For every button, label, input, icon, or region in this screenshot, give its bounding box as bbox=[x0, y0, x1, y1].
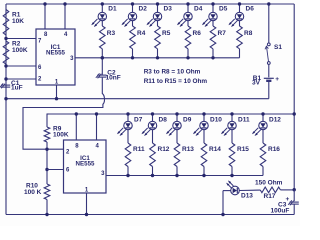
junction left bus pin2 bbox=[4, 77, 7, 80]
op-amp IC2 NE555 box bbox=[64, 140, 107, 193]
IC1 pin 2 number bbox=[38, 77, 42, 83]
IC2 pin 2 number bbox=[66, 150, 70, 156]
svg-text:R15: R15 bbox=[237, 146, 249, 153]
wire D10 to R14 bbox=[203, 130, 205, 143]
IC1 pin 8 stub bbox=[44, 4, 46, 29]
svg-text:R3 to R8 = 10 Ohm: R3 to R8 = 10 Ohm bbox=[144, 68, 201, 75]
wire R10 to bottom rail bbox=[46, 200, 48, 215]
wire bottom ground rail bbox=[6, 214, 294, 216]
LED D1 feed wire bbox=[101, 4, 103, 12]
svg-text:7: 7 bbox=[38, 39, 42, 45]
svg-text:100K: 100K bbox=[12, 47, 28, 54]
svg-text:10nF: 10nF bbox=[106, 75, 121, 82]
svg-text:D2: D2 bbox=[139, 6, 148, 13]
svg-text:R14: R14 bbox=[209, 146, 221, 153]
svg-text:4: 4 bbox=[96, 144, 100, 150]
svg-text:D8: D8 bbox=[159, 117, 168, 124]
LED D3 feed wire bbox=[157, 4, 159, 12]
wire R7 to output rail bbox=[212, 49, 214, 58]
junction IC2 output rail R14 bbox=[202, 174, 205, 177]
junction supply rail D8 bbox=[151, 112, 154, 115]
junction output rail R3 bbox=[101, 56, 104, 59]
junction supply rail pin4 bbox=[95, 112, 98, 115]
label R14 bbox=[209, 146, 221, 153]
wire R9 bottom to R10 bbox=[46, 142, 48, 184]
wire lower supply rail bbox=[48, 113, 294, 115]
junction right bus R17 bbox=[293, 188, 296, 191]
wire pin3 rail to C2 bbox=[101, 58, 103, 75]
resistor R13 bbox=[174, 143, 180, 167]
wire R16 to output rail bbox=[262, 167, 264, 176]
wire IC1 pin3 output rail bbox=[75, 57, 240, 59]
resistor R4 bbox=[130, 26, 136, 49]
note R11-R15 value bbox=[144, 78, 208, 85]
resistor R1 bbox=[3, 10, 9, 36]
label S1 bbox=[274, 44, 282, 51]
LED D10 bbox=[193, 121, 208, 136]
junction top rail pin8 bbox=[43, 2, 46, 5]
capacitor C3 bbox=[288, 200, 299, 205]
label R11 bbox=[133, 146, 145, 153]
label R7 bbox=[218, 30, 227, 37]
IC1 pin 3 number bbox=[70, 56, 74, 62]
wire D7 to R11 bbox=[127, 130, 129, 143]
capacitor C1 bbox=[0, 83, 10, 88]
op-amp IC1 NE555 box bbox=[36, 29, 75, 85]
wire R17 to right bus bbox=[280, 189, 294, 191]
LED D9 feed wire bbox=[176, 114, 178, 121]
IC1 label bbox=[46, 44, 65, 56]
junction bottom rail D13 bbox=[221, 213, 224, 216]
label D8 bbox=[159, 117, 168, 124]
wire D13 to R17 bbox=[239, 189, 260, 191]
junction pin6 net bbox=[45, 168, 48, 171]
wire D1 to R3 bbox=[101, 21, 103, 26]
label R8 bbox=[244, 30, 253, 37]
wire right bus to C3 bbox=[293, 190, 295, 202]
label R5 bbox=[162, 30, 171, 37]
wire battery to ground rail bbox=[268, 82, 270, 99]
resistor R15 bbox=[229, 143, 235, 167]
label C1 1uF bbox=[11, 80, 23, 92]
wire R15 to output rail bbox=[231, 167, 233, 176]
svg-text:10K: 10K bbox=[12, 18, 24, 25]
junction supply rail D7 bbox=[126, 112, 129, 115]
LED D4 feed wire bbox=[187, 4, 189, 12]
svg-text:2: 2 bbox=[38, 77, 42, 83]
svg-text:D3: D3 bbox=[164, 6, 173, 13]
wire D6 to R8 bbox=[239, 21, 241, 26]
junction output rail R4 bbox=[131, 56, 134, 59]
svg-text:R7: R7 bbox=[218, 30, 227, 37]
resistor R14 bbox=[201, 143, 207, 167]
wire D8 to R12 bbox=[152, 130, 154, 143]
wire D5 to R7 bbox=[212, 21, 214, 26]
wire R8 to output rail bbox=[239, 49, 241, 58]
resistor R12 bbox=[150, 143, 156, 167]
resistor R7 bbox=[210, 26, 216, 49]
wire top supply rail bbox=[6, 3, 294, 5]
LED D2 feed wire bbox=[132, 4, 134, 12]
junction left bus pin6 bbox=[4, 64, 7, 67]
LED D9 bbox=[166, 121, 181, 136]
resistor R5 bbox=[155, 26, 161, 49]
label D1 bbox=[108, 6, 117, 13]
IC1 pin 7 number bbox=[38, 39, 42, 45]
LED D4 bbox=[177, 12, 192, 27]
wire R3 to output rail bbox=[101, 49, 103, 58]
IC1 pin 6 wire bbox=[6, 65, 36, 67]
junction ground rail pin1 bbox=[55, 97, 58, 100]
svg-text:D5: D5 bbox=[219, 6, 228, 13]
wire R12 to output rail bbox=[152, 167, 154, 176]
junction supply rail D12 bbox=[261, 112, 264, 115]
LED D5 feed wire bbox=[212, 4, 214, 12]
LED D6 feed wire bbox=[239, 4, 241, 12]
svg-text:+: + bbox=[286, 196, 290, 203]
svg-text:D6: D6 bbox=[246, 6, 255, 13]
wire R13 to output rail bbox=[176, 167, 178, 176]
wire S1 to battery bbox=[268, 64, 270, 77]
svg-text:100K: 100K bbox=[53, 132, 69, 139]
resistor R17 bbox=[260, 187, 280, 193]
IC1 pin 8 number bbox=[44, 32, 48, 38]
svg-text:3: 3 bbox=[101, 171, 105, 177]
svg-text:R17: R17 bbox=[264, 193, 276, 200]
svg-text:100uF: 100uF bbox=[271, 208, 290, 215]
svg-text:1uF: 1uF bbox=[11, 85, 23, 92]
svg-text:8: 8 bbox=[44, 32, 48, 38]
wire D3 to R5 bbox=[157, 21, 159, 26]
LED D8 bbox=[141, 121, 156, 136]
svg-text:R8: R8 bbox=[244, 30, 253, 37]
wire R5 to output rail bbox=[157, 49, 159, 58]
svg-text:+: + bbox=[275, 76, 279, 83]
LED D7 feed wire bbox=[127, 114, 129, 121]
junction left bus ground bbox=[4, 97, 7, 100]
battery plus sign bbox=[275, 76, 279, 83]
IC2 label bbox=[76, 155, 95, 168]
label D9 bbox=[183, 117, 192, 124]
label R13 bbox=[182, 146, 194, 153]
label R3 bbox=[107, 30, 116, 37]
junction top rail D1 bbox=[101, 2, 104, 5]
svg-text:R13: R13 bbox=[182, 146, 194, 153]
label C2 10nF bbox=[106, 70, 121, 82]
LED D8 feed wire bbox=[152, 114, 154, 121]
junction supply rail D10 bbox=[202, 112, 205, 115]
svg-text:3: 3 bbox=[70, 56, 74, 62]
IC2 pin 4 stub bbox=[96, 114, 98, 140]
junction supply rail D11 bbox=[230, 112, 233, 115]
label D3 bbox=[164, 6, 173, 13]
label R4 bbox=[137, 30, 146, 37]
svg-text:R11: R11 bbox=[133, 146, 145, 153]
label D12 bbox=[269, 117, 281, 124]
svg-text:2: 2 bbox=[66, 150, 70, 156]
label R15 bbox=[237, 146, 249, 153]
junction top rail D2 bbox=[131, 2, 134, 5]
junction bottom rail R10 bbox=[45, 213, 48, 216]
junction bottom rail pin1 bbox=[85, 213, 88, 216]
junction output rail R7 bbox=[211, 56, 214, 59]
IC2 pin 8 stub bbox=[75, 114, 77, 140]
capacitor C2 bbox=[96, 73, 107, 78]
wire top rail to S1 bbox=[268, 4, 270, 43]
IC2 pin 1 stub bbox=[86, 193, 88, 215]
svg-text:D13: D13 bbox=[241, 193, 253, 200]
svg-text:R6: R6 bbox=[193, 30, 202, 37]
wire C3 to bottom rail bbox=[293, 204, 295, 214]
IC1 pin 7 wire bbox=[6, 38, 36, 40]
IC1 pin 2 wire bbox=[6, 78, 36, 80]
label R10 100K bbox=[24, 183, 42, 197]
switch S1 bbox=[265, 43, 270, 64]
svg-text:6: 6 bbox=[66, 167, 70, 173]
svg-text:R12: R12 bbox=[158, 146, 170, 153]
junction IC2 output rail R15 bbox=[230, 174, 233, 177]
IC2 pin 1 number bbox=[85, 188, 89, 194]
junction top rail pin4 bbox=[63, 2, 66, 5]
IC1 pin 4 number bbox=[64, 32, 68, 38]
C3 plus sign bbox=[286, 196, 290, 203]
IC1 pin 1 number bbox=[55, 80, 59, 86]
wire D4 to R6 bbox=[187, 21, 189, 26]
LED D5 bbox=[202, 12, 217, 27]
wire left bus bbox=[5, 4, 7, 215]
label D4 bbox=[194, 6, 203, 13]
IC2 pin 8 number bbox=[75, 144, 79, 150]
IC1 pin 6 number bbox=[38, 65, 42, 71]
junction top rail D4 bbox=[186, 2, 189, 5]
label D5 bbox=[219, 6, 228, 13]
svg-text:D9: D9 bbox=[183, 117, 192, 124]
svg-text:R16: R16 bbox=[268, 146, 280, 153]
junction supply rail right bbox=[293, 112, 296, 115]
svg-text:R4: R4 bbox=[137, 30, 146, 37]
svg-text:D11: D11 bbox=[238, 117, 250, 124]
svg-text:R3: R3 bbox=[107, 30, 116, 37]
junction R9 bottom pin2 net bbox=[45, 148, 48, 151]
junction top rail D5 bbox=[211, 2, 214, 5]
battery B1 bbox=[264, 78, 274, 81]
junction output rail R5 bbox=[156, 56, 159, 59]
label C3 100uF bbox=[271, 202, 290, 215]
resistor R11 bbox=[125, 143, 131, 167]
svg-text:D10: D10 bbox=[210, 117, 222, 124]
svg-text:D7: D7 bbox=[134, 117, 143, 124]
IC2 pin 3 number bbox=[101, 171, 105, 177]
svg-text:NE555: NE555 bbox=[76, 161, 95, 168]
svg-text:D4: D4 bbox=[194, 6, 203, 13]
label D11 bbox=[238, 117, 250, 124]
LED D11 bbox=[221, 121, 236, 136]
svg-text:4: 4 bbox=[64, 32, 68, 38]
junction supply rail pin8 bbox=[75, 112, 78, 115]
label D7 bbox=[134, 117, 143, 124]
label 150 Ohm bbox=[255, 179, 283, 186]
svg-text:100 K: 100 K bbox=[24, 189, 42, 196]
LED D6 bbox=[228, 12, 243, 27]
label D6 bbox=[246, 6, 255, 13]
LED D13 bbox=[226, 180, 239, 194]
label R6 bbox=[193, 30, 202, 37]
IC2 pin 6 wire bbox=[47, 169, 64, 171]
wire R4 to output rail bbox=[132, 49, 134, 58]
IC2 pin 4 number bbox=[96, 144, 100, 150]
LED D2 bbox=[121, 12, 136, 27]
LED D1 bbox=[91, 12, 106, 27]
wire D11 to R15 bbox=[231, 130, 233, 143]
IC2 pin 6 number bbox=[66, 167, 70, 173]
junction IC2 output rail R12 bbox=[151, 174, 154, 177]
svg-text:NE555: NE555 bbox=[46, 50, 65, 57]
resistor R9 bbox=[44, 127, 50, 142]
LED D3 bbox=[146, 12, 161, 27]
junction IC2 output rail R13 bbox=[175, 174, 178, 177]
label R2 100K bbox=[12, 41, 28, 55]
label B1 3V bbox=[252, 75, 261, 87]
resistor R6 bbox=[185, 26, 191, 49]
junction top rail D6 bbox=[238, 2, 241, 5]
LED D12 bbox=[252, 121, 267, 136]
label R1 10K bbox=[12, 12, 24, 26]
svg-text:S1: S1 bbox=[274, 44, 282, 51]
junction supply rail D9 bbox=[175, 112, 178, 115]
wire R11 to output rail bbox=[127, 167, 129, 176]
LED D12 feed wire bbox=[262, 114, 264, 121]
junction output rail C2 bbox=[101, 56, 104, 59]
wire R9 top lead bbox=[47, 114, 49, 127]
junction left bus pin7 bbox=[4, 37, 7, 40]
label D13 bbox=[241, 193, 253, 200]
label R16 bbox=[268, 146, 280, 153]
note R3-R8 value bbox=[144, 68, 201, 75]
wire bottom rail to D13 bbox=[223, 191, 231, 215]
wire D2 to R4 bbox=[132, 21, 134, 26]
wire IC2 pin3 output rail bbox=[106, 175, 263, 177]
IC1 pin 1 stub bbox=[56, 85, 58, 99]
LED D7 bbox=[117, 121, 132, 136]
resistor R8 bbox=[237, 26, 243, 49]
LED D10 feed wire bbox=[203, 114, 205, 121]
svg-text:R11 to R15 = 10 Ohm: R11 to R15 = 10 Ohm bbox=[144, 78, 208, 85]
wire top ground rail bbox=[6, 98, 269, 100]
junction top rail D3 bbox=[156, 2, 159, 5]
resistor R2 bbox=[3, 41, 9, 64]
svg-text:D12: D12 bbox=[269, 117, 281, 124]
junction top rail battery branch bbox=[267, 2, 270, 5]
LED D11 feed wire bbox=[231, 114, 233, 121]
label R9 100K bbox=[53, 126, 69, 139]
svg-text:150 Ohm: 150 Ohm bbox=[255, 179, 283, 186]
label D10 bbox=[210, 117, 222, 124]
resistor R10 bbox=[44, 184, 50, 200]
label R12 bbox=[158, 146, 170, 153]
wire right bus upper bbox=[293, 4, 295, 190]
svg-text:D1: D1 bbox=[108, 6, 117, 13]
label R17 bbox=[264, 193, 276, 200]
svg-text:R5: R5 bbox=[162, 30, 171, 37]
label D2 bbox=[139, 6, 148, 13]
svg-text:6: 6 bbox=[38, 65, 42, 71]
junction output rail R6 bbox=[186, 56, 189, 59]
IC1 pin 4 stub bbox=[64, 4, 66, 29]
resistor R16 bbox=[260, 143, 266, 167]
svg-text:3V: 3V bbox=[252, 80, 261, 87]
wire D9 to R13 bbox=[176, 130, 178, 143]
wire R14 to output rail bbox=[203, 167, 205, 176]
svg-text:8: 8 bbox=[75, 144, 79, 150]
junction IC2 output rail R11 bbox=[126, 174, 129, 177]
wire R6 to output rail bbox=[187, 49, 189, 58]
resistor R3 bbox=[100, 26, 106, 49]
wire C2 to IC2 pin2 (hop over ground rail) bbox=[23, 78, 104, 150]
wire D12 to R16 bbox=[262, 130, 264, 143]
